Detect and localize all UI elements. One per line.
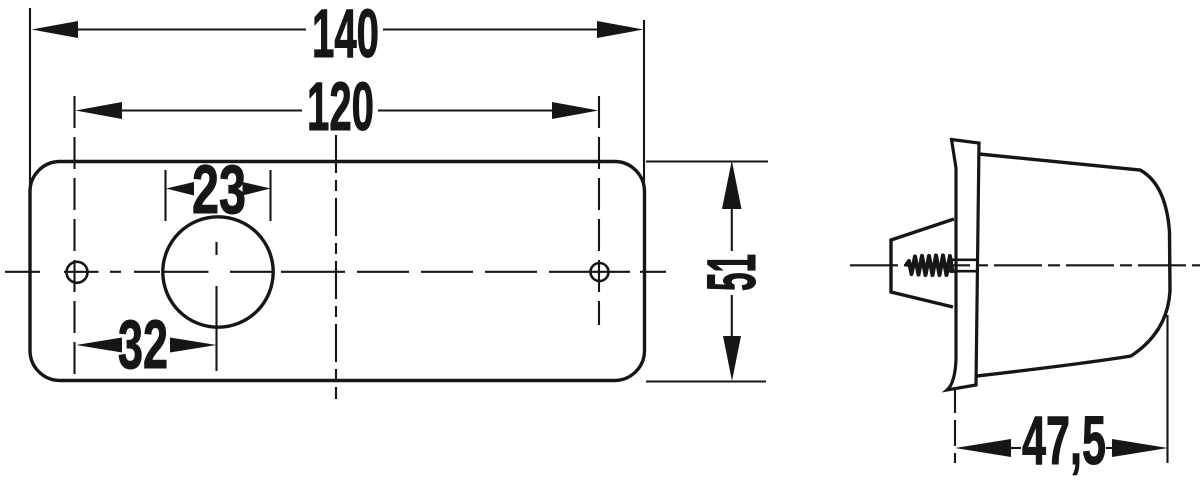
dim 120 right arrowhead (552, 102, 599, 119)
side view lens flange (947, 140, 979, 391)
svg-text:120: 120 (307, 68, 374, 145)
right mounting hole (591, 263, 609, 281)
horizontal centerline (front view) (5, 271, 666, 273)
svg-text:47,5: 47,5 (1022, 402, 1106, 479)
left mounting hole vertical dashed centerline (73, 96, 75, 375)
lens circle center mark vertical dash above (215, 242, 217, 255)
dim 140 left extension line (29, 8, 31, 196)
dim 47,5 right extension line (1166, 315, 1168, 463)
vertical centerline (front view symmetry axis) (335, 135, 337, 399)
svg-text:32: 32 (118, 306, 168, 383)
front view lamp base outline (rounded rectangle) (30, 162, 645, 381)
dim 140 right arrowhead (597, 21, 644, 38)
dim 32 dimension line arrow left (76, 338, 122, 353)
lens circle vertical centerline below (ext of dim 32) (215, 286, 217, 371)
screw thread (906, 256, 953, 276)
dim 51 top arrowhead (722, 161, 742, 210)
dim 140 left arrowhead (32, 21, 79, 38)
dim 32 dimension line arrow right (170, 338, 217, 353)
dim 120 dimension line (122, 109, 302, 111)
dim 23 left extension line (164, 170, 166, 221)
dim 47,5 left extension line (954, 387, 956, 463)
dim 23 right arrowhead (243, 182, 271, 196)
dim 51 bottom extension line (646, 380, 766, 382)
svg-text:51: 51 (693, 254, 770, 291)
lens opening circle (dia 23) (163, 217, 273, 327)
right mounting hole vertical dashed centerline (598, 96, 600, 325)
dim 23 left arrowhead (166, 182, 194, 196)
dim 47,5 left arrowhead (955, 439, 1011, 457)
svg-text:140: 140 (312, 0, 379, 72)
svg-text:23: 23 (192, 151, 246, 228)
dim 51 top extension line (646, 160, 768, 162)
horizontal centerline (side view) (850, 264, 1200, 266)
side view housing body (977, 154, 1170, 376)
dim 120 left arrowhead (76, 102, 123, 119)
dim 140 right extension line (643, 20, 645, 196)
dim 47,5 right arrowhead (1112, 439, 1168, 457)
dim 47,5 dimension line (1011, 447, 1021, 449)
dim 23 right extension line (269, 170, 271, 221)
side view mounting boss (cone) (891, 219, 954, 307)
left mounting hole (67, 262, 88, 283)
dim 140 dimension line (78, 28, 306, 30)
dim 51 dimension line (731, 209, 733, 251)
screw shank through flange (949, 258, 978, 261)
dim 51 bottom arrowhead (723, 336, 741, 381)
